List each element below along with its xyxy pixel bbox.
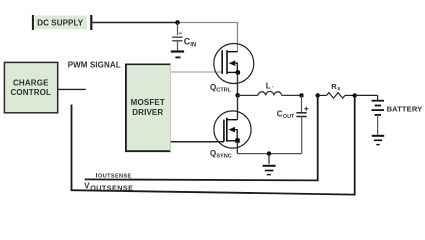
svg-text:OUTSENSE: OUTSENSE <box>90 184 133 193</box>
svg-text:DC SUPPLY: DC SUPPLY <box>37 18 84 27</box>
svg-text:CHARGE: CHARGE <box>13 78 49 87</box>
svg-text:L: L <box>266 81 271 90</box>
svg-text:OUTSENSE: OUTSENSE <box>98 173 132 179</box>
svg-text:BATTERY: BATTERY <box>387 104 423 113</box>
svg-text:SYNC: SYNC <box>216 153 231 159</box>
svg-text:IN: IN <box>190 43 196 49</box>
svg-text:PWM SIGNAL: PWM SIGNAL <box>68 60 121 69</box>
svg-text:CONTROL: CONTROL <box>10 88 51 97</box>
svg-text:s: s <box>337 86 340 92</box>
svg-text:OUT: OUT <box>283 114 295 120</box>
svg-text:MOSFET: MOSFET <box>131 98 165 107</box>
svg-text:CTRL: CTRL <box>216 87 231 93</box>
svg-text:DRIVER: DRIVER <box>132 108 163 117</box>
